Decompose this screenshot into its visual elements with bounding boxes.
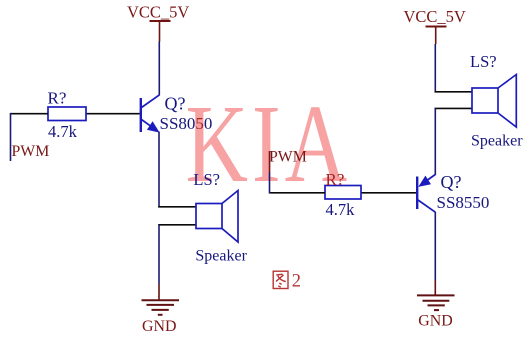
svg-text:SS8050: SS8050 <box>160 114 213 133</box>
power symbol VCC_5V (left) <box>127 3 189 42</box>
wire LS1 to ground <box>158 225 160 300</box>
wire speaker LS2 top terminal <box>435 91 473 93</box>
transistor Q1 (NPN SS8050) <box>140 95 160 133</box>
svg-text:GND: GND <box>418 313 452 330</box>
svg-text:R?: R? <box>326 170 345 189</box>
svg-text:PWM: PWM <box>12 143 50 160</box>
wire LS2 to Q2 emitter <box>434 108 436 175</box>
svg-text:4.7k: 4.7k <box>326 200 356 219</box>
svg-text:VCC_5V: VCC_5V <box>127 3 189 22</box>
wire PWM input to R1 (left) <box>11 113 49 115</box>
svg-text:Q?: Q? <box>165 94 186 114</box>
resistor R2 <box>325 186 361 200</box>
svg-text:4.7k: 4.7k <box>48 122 78 141</box>
wire VCC to LS2 <box>434 44 436 93</box>
wire speaker LS1 bottom terminal <box>158 224 196 226</box>
svg-text:SS8550: SS8550 <box>437 193 490 212</box>
wire Q1 emitter to speaker <box>158 132 160 208</box>
resistor R1 <box>48 107 86 121</box>
power symbol VCC_5V (right) <box>404 7 466 44</box>
svg-text:LS?: LS? <box>470 52 497 71</box>
wire speaker LS1 top terminal <box>158 206 196 208</box>
wire speaker LS2 bottom terminal <box>435 107 473 109</box>
svg-text:GND: GND <box>142 318 176 335</box>
wire PWM stub (left) <box>10 113 12 161</box>
svg-text:PWM: PWM <box>269 149 307 166</box>
ground symbol (right) <box>417 295 455 310</box>
ground symbol (left) <box>142 300 180 315</box>
svg-text:LS?: LS? <box>193 170 220 189</box>
svg-text:Speaker: Speaker <box>195 248 247 265</box>
svg-text:2: 2 <box>292 271 301 291</box>
svg-text:Q?: Q? <box>441 172 462 192</box>
svg-text:VCC_5V: VCC_5V <box>404 7 466 26</box>
wire PWM input to R2 (right) <box>270 192 326 194</box>
wire Q2 collector to ground <box>434 212 436 295</box>
wire Q2 base <box>361 192 416 194</box>
speaker LS2 <box>472 75 516 128</box>
svg-text:R?: R? <box>48 89 67 108</box>
caption 图2 (figure 2) <box>273 271 301 291</box>
wire Q1 base <box>86 113 140 115</box>
wire PWM stub (right) <box>269 151 271 194</box>
speaker LS1 <box>196 191 238 243</box>
wire VCC to Q1 collector <box>158 42 160 96</box>
transistor Q2 (PNP SS8550) <box>416 175 436 213</box>
svg-text:Speaker: Speaker <box>471 133 523 150</box>
watermark KIA <box>186 82 352 206</box>
